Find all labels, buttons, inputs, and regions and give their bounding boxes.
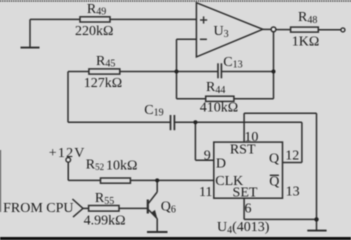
svg-text:11: 11 (199, 185, 212, 200)
svg-text:+12V: +12V (49, 146, 86, 161)
svg-text:1KΩ: 1KΩ (292, 34, 320, 49)
svg-text:D: D (216, 156, 226, 171)
svg-text:4.99kΩ: 4.99kΩ (84, 214, 126, 229)
svg-text:410kΩ: 410kΩ (200, 101, 238, 116)
svg-text:SET: SET (233, 185, 258, 200)
svg-text:220kΩ: 220kΩ (75, 24, 113, 39)
svg-text:12: 12 (285, 148, 299, 163)
svg-text:FROM CPU: FROM CPU (3, 201, 73, 216)
svg-text:9: 9 (204, 149, 211, 164)
svg-text:10: 10 (244, 130, 258, 145)
svg-text:U4(4013): U4(4013) (217, 220, 270, 236)
svg-text:Q: Q (269, 152, 279, 167)
svg-text:127kΩ: 127kΩ (84, 76, 122, 91)
svg-text:Q: Q (269, 175, 279, 190)
svg-text:10kΩ: 10kΩ (106, 158, 137, 173)
svg-text:6: 6 (245, 201, 252, 216)
svg-text:13: 13 (286, 184, 300, 199)
